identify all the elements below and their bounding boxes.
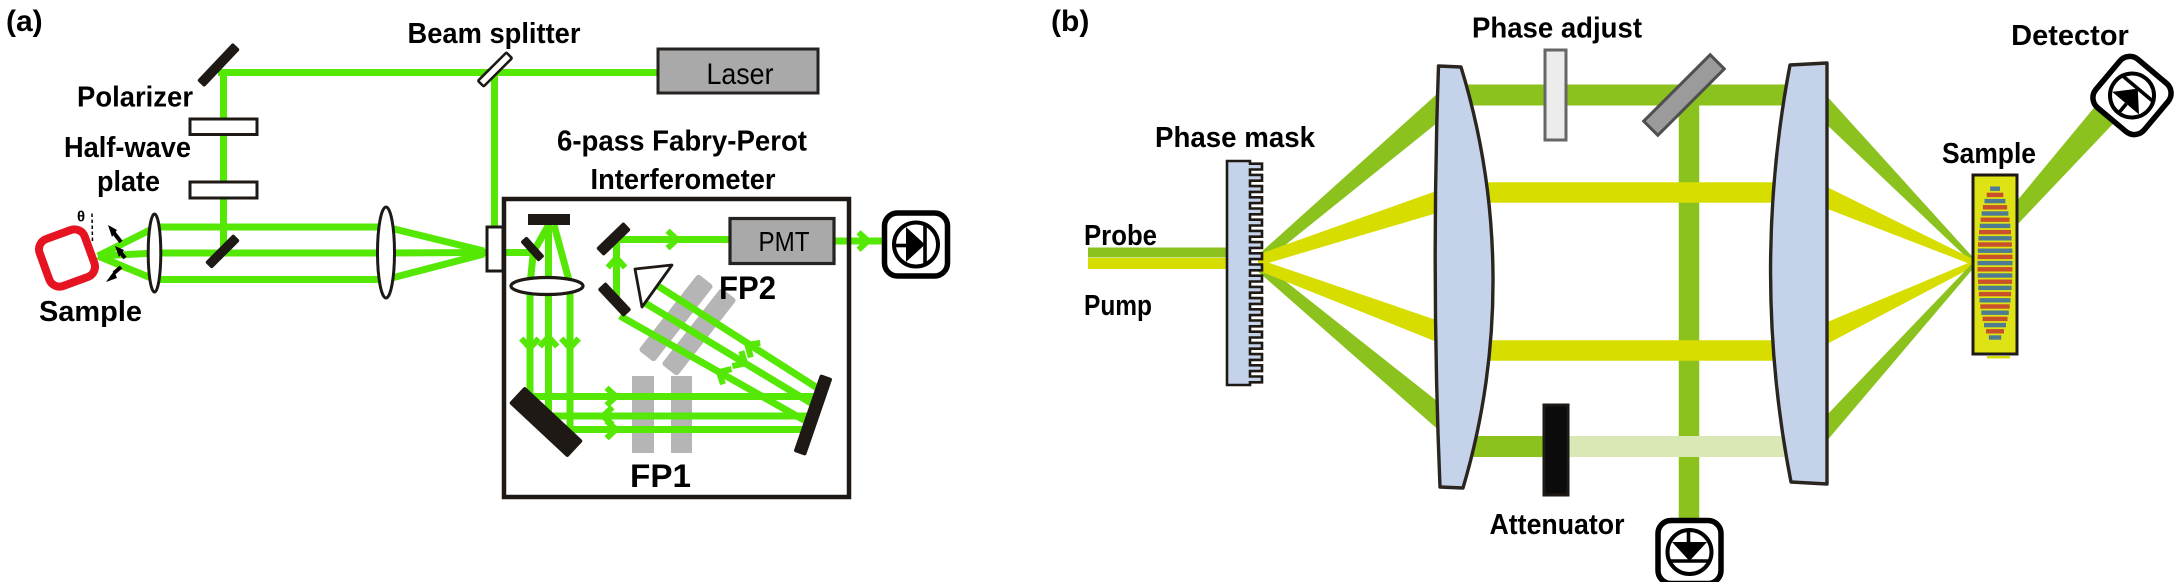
detector icon (b) bottom [1658, 521, 1721, 582]
svg-text:Detector: Detector [2011, 20, 2129, 52]
arrow up-left diagonal 3 [715, 364, 732, 384]
lens L2 (a) [378, 207, 395, 298]
svg-text:Half-wave: Half-wave [64, 132, 191, 164]
etalon FP1 plate 2 [671, 376, 692, 453]
wire: diverging yellow up [1258, 189, 1442, 266]
label Pump [1084, 290, 1152, 322]
half-wave plate element [190, 182, 257, 198]
arrow down-right diagonal 2 [732, 351, 749, 371]
label Detector [2011, 20, 2129, 52]
sample red cell [36, 226, 98, 289]
svg-text:Beam splitter: Beam splitter [408, 18, 581, 50]
prism [635, 265, 672, 307]
panel label (b) [1051, 5, 1089, 38]
detector icon (a) [885, 213, 948, 276]
wire: beam FP1 mid [540, 413, 815, 420]
label Sample (a) [39, 296, 142, 328]
svg-text:6-pass Fabry-Perot: 6-pass Fabry-Perot [557, 126, 807, 158]
label Half-wave [64, 132, 191, 164]
label Phase mask [1155, 122, 1316, 154]
label Attenuator [1490, 509, 1625, 541]
wire: beam sample-lens mid [98, 253, 156, 256]
wire: diverging green up [1258, 90, 1442, 268]
wire: beam sample-lens top [98, 227, 156, 256]
arrow right FP1 bottom [607, 421, 617, 438]
label FP2 [719, 270, 776, 306]
phase adjust slab [1545, 50, 1566, 140]
wire: beam into interferometer [481, 249, 536, 256]
wire: pump input beam [1088, 258, 1228, 269]
svg-text:Interferometer: Interferometer [591, 164, 776, 196]
mirror M6 right [794, 374, 833, 456]
wire: beam converge top [386, 227, 484, 251]
arrow up on mid vertical [540, 337, 557, 347]
lens L2 (b) [1771, 63, 1827, 484]
svg-text:FP2: FP2 [719, 270, 776, 306]
label 6-pass Fabry-Perot [557, 126, 807, 158]
etalon FP1 plate 1 [632, 376, 654, 453]
wire: beam bottom horizontal [155, 276, 387, 283]
svg-text:Phase adjust: Phase adjust [1472, 13, 1642, 45]
wire: probe input beam [1088, 248, 1228, 258]
wire: beam laser to top-left mirror [218, 69, 660, 76]
PMT box [730, 219, 834, 264]
wire: vertical beam to bottom detector [1679, 100, 1700, 524]
svg-text:θ: θ [77, 209, 85, 226]
mirror M2 injection [205, 234, 240, 269]
svg-text:PMT: PMT [759, 226, 810, 257]
label Sample (b) [1942, 138, 2036, 170]
wire: beam PMT to detector [835, 238, 886, 245]
mirror M5 bottom-left [509, 386, 583, 457]
wire: beam prism vertical [613, 242, 620, 297]
laser box [658, 49, 818, 93]
arrow right to PMT [668, 231, 678, 248]
wire: diverging green down [1258, 260, 1442, 434]
etalon FP2 plate 2 [661, 288, 736, 377]
wire: beam mirror4 to mirror3 [534, 226, 548, 251]
svg-text:Sample: Sample [1942, 138, 2036, 170]
beam splitter plate [478, 53, 512, 87]
arrow up prism vertical [608, 258, 625, 268]
phase mask comb [1227, 161, 1262, 385]
detector icon (b) top [2088, 51, 2174, 140]
wire: beam top horizontal [155, 224, 387, 231]
wire: beam slant mirror3 right [554, 225, 570, 284]
panel label (a) [6, 5, 43, 38]
wire: beam converge bottom [386, 254, 484, 280]
wire: horizontal yellow 2 [1450, 340, 1815, 361]
mirror M3 top inside [528, 214, 570, 225]
wire: converging green top [1825, 94, 1974, 265]
label PMT [759, 226, 810, 257]
sample cell (b) [1973, 175, 2017, 359]
arrow left FP1 mid [603, 407, 613, 424]
label FP1 [630, 458, 691, 494]
svg-text:(b): (b) [1051, 5, 1089, 38]
polarizer plate [190, 119, 257, 135]
wire: beam vertical from beam splitter [491, 71, 498, 230]
wire: beam sample-lens bottom [98, 256, 156, 280]
wire: beam converge mid [386, 249, 484, 257]
wire: beam vertical right inside box [567, 282, 574, 430]
svg-text:Phase mask: Phase mask [1155, 122, 1316, 154]
lens L3 horizontal inside [511, 278, 583, 295]
wire: converging yellow 1 [1825, 186, 1974, 266]
wire: beam diagonal 1 [658, 286, 821, 390]
label Probe [1084, 220, 1157, 252]
svg-text:Sample: Sample [39, 296, 142, 328]
arrow right FP1 top [607, 388, 617, 405]
entrance window [487, 227, 503, 271]
wire: diverging yellow down [1258, 259, 1442, 344]
wire: beam diagonal 3 [620, 316, 811, 424]
wire: horizontal green bottom pre-attenuator [1450, 436, 1556, 457]
svg-text:(a): (a) [6, 5, 43, 38]
lens L1 (a) [148, 214, 161, 292]
arrow down on right vertical [561, 339, 578, 349]
wire: converging yellow 2 [1825, 261, 1974, 346]
svg-text:Polarizer: Polarizer [77, 82, 193, 114]
wire: horizontal green top [1450, 85, 1820, 106]
lens L1 (b) [1435, 66, 1493, 488]
scatter arrow up [108, 225, 121, 242]
label Laser [707, 58, 774, 91]
scatter arrow down [106, 267, 121, 282]
svg-text:plate: plate [97, 166, 160, 198]
wire: horizontal pale green post-attenuator [1556, 436, 1820, 457]
wire: horizontal yellow 1 [1450, 182, 1815, 203]
svg-text:FP1: FP1 [630, 458, 691, 494]
label theta [77, 209, 85, 226]
scatter arrow mid [115, 246, 125, 258]
wire: beam mid horizontal [155, 250, 387, 257]
svg-text:Attenuator: Attenuator [1490, 509, 1625, 541]
theta dashed line [91, 214, 94, 244]
arrow down on left vertical [521, 339, 538, 349]
interferometer box [504, 199, 849, 497]
arrow right to detector [859, 232, 869, 249]
arrow up-left diagonal 1 [743, 338, 760, 358]
mirror M4 small inside [520, 236, 544, 262]
wire: beam FP1 bottom [557, 426, 809, 433]
label Phase adjust [1472, 13, 1642, 45]
mirror M1 top-left [197, 43, 240, 88]
svg-text:Pump: Pump [1084, 290, 1152, 322]
wire: beam sample to detector [1973, 92, 2128, 266]
wire: beam FP1 top [527, 393, 819, 400]
wire: beam vertical polarizer path [220, 70, 227, 250]
wire: beam vertical left inside box [530, 256, 533, 399]
label Polarizer [77, 82, 193, 114]
wire: beam vertical mid inside box [545, 224, 552, 417]
etalon FP2 plate 1 [638, 274, 713, 363]
svg-text:Probe: Probe [1084, 220, 1157, 252]
label Beam splitter [408, 18, 581, 50]
wire: converging green bottom [1825, 262, 1974, 444]
svg-text:Laser: Laser [707, 58, 774, 91]
label plate [97, 166, 160, 198]
wire: beam diagonal 2 [645, 303, 816, 406]
mirror M8 mid-high [596, 222, 631, 256]
label Interferometer [591, 164, 776, 196]
wire: beam to PMT [613, 236, 734, 243]
pick-off mirror (b) [1644, 55, 1725, 136]
attenuator bar [1544, 405, 1568, 495]
mirror M7 mid-low [598, 282, 632, 317]
